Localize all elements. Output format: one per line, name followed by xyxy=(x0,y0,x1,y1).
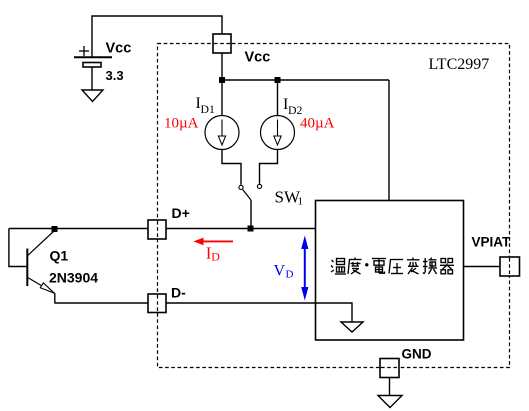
wire GND pin to ground xyxy=(389,377,391,396)
svg-text:2N3904: 2N3904 xyxy=(49,270,98,286)
char KAN(exchange) xyxy=(423,258,437,275)
transistor Q1 xyxy=(27,231,55,304)
wire VPIAT xyxy=(464,266,501,268)
char ATSU(pressure) xyxy=(389,260,403,274)
svg-text:D+: D+ xyxy=(172,205,190,221)
wire D+ line xyxy=(9,228,316,230)
node junction collector/D+ xyxy=(52,226,58,232)
svg-text:D1: D1 xyxy=(201,102,216,116)
node junction at ID2 xyxy=(275,77,281,83)
voltage arrow VD (blue) xyxy=(301,236,308,301)
pin VPIAT xyxy=(500,257,520,276)
node junction at Vcc/ID1 xyxy=(219,77,225,83)
char HEN(change) xyxy=(407,258,420,275)
switch SW1 xyxy=(239,184,262,228)
svg-text:40µA: 40µA xyxy=(300,116,335,132)
svg-text:Vcc: Vcc xyxy=(106,41,132,57)
voltage source V1 Vcc 3.3 xyxy=(74,41,131,91)
ground (internal) xyxy=(341,322,363,332)
svg-text:VPIAT: VPIAT xyxy=(472,235,512,250)
node junction switch/D+ xyxy=(248,226,254,232)
svg-text:D: D xyxy=(211,249,220,263)
current source ID1 10uA xyxy=(205,116,239,150)
svg-text:3.3: 3.3 xyxy=(106,68,124,83)
wire D+ down to base xyxy=(9,229,27,267)
label ID1 xyxy=(196,95,216,116)
pin D- xyxy=(148,294,166,313)
pin D+ xyxy=(148,220,166,239)
ground (GND pin) xyxy=(378,396,402,408)
svg-text:10µA: 10µA xyxy=(164,116,199,132)
wire rail to ID2 xyxy=(277,80,279,116)
pin GND xyxy=(380,359,399,378)
label VD (blue) xyxy=(274,263,294,281)
char middle dot xyxy=(365,263,368,266)
svg-text:Vcc: Vcc xyxy=(245,50,271,66)
pin Vcc xyxy=(213,34,231,53)
wire ID2 to switch right contact xyxy=(260,150,278,184)
wire battery top to Vcc pin xyxy=(92,16,222,57)
label SW1 xyxy=(275,188,304,208)
wire D- into block to internal ground xyxy=(316,303,353,322)
wire D- line xyxy=(55,302,316,304)
wire rail down to converter block xyxy=(388,80,390,201)
svg-text:GND: GND xyxy=(402,347,432,362)
char KI(device) xyxy=(440,259,454,274)
ground (battery) xyxy=(82,90,103,102)
current source ID2 40uA xyxy=(261,116,295,150)
svg-text:1: 1 xyxy=(298,196,304,208)
char ON(temperature) xyxy=(331,259,346,275)
svg-text:Q1: Q1 xyxy=(50,248,69,264)
converter block (temperature-voltage converter) xyxy=(316,201,464,341)
svg-text:V: V xyxy=(274,263,286,280)
svg-text:D: D xyxy=(286,269,294,281)
char DO(degree) xyxy=(348,258,362,275)
wire Vcc pin to rail and ID1 xyxy=(221,53,223,116)
label converter text (CJK drawn strokes) xyxy=(331,258,454,275)
wire Vcc rail xyxy=(222,79,389,81)
label ID2 xyxy=(283,96,303,117)
dashed line redraw inside pin boxes xyxy=(158,44,510,368)
char DEN(electric) xyxy=(372,259,386,274)
svg-text:D-: D- xyxy=(171,285,186,301)
current arrow ID (red) xyxy=(194,238,234,246)
svg-text:LTC2997: LTC2997 xyxy=(429,56,490,73)
wire ID1 to switch left contact xyxy=(222,150,241,185)
label ID (red) xyxy=(206,243,221,263)
IC boundary LTC2997 (dashed) xyxy=(158,44,510,368)
